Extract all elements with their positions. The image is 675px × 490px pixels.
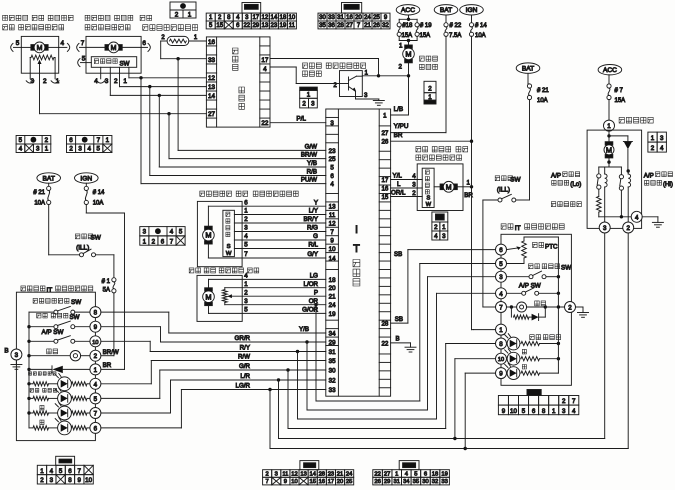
svg-text:36: 36 xyxy=(328,23,335,29)
svg-text:6: 6 xyxy=(244,199,248,206)
power source IGN top xyxy=(460,5,484,15)
svg-text:BR: BR xyxy=(103,362,112,369)
svg-text:10: 10 xyxy=(92,340,98,346)
svg-text:22: 22 xyxy=(374,471,380,477)
auto amp body xyxy=(206,37,270,127)
wire pin 7 to L/R xyxy=(101,412,171,414)
label rear vent LED xyxy=(530,335,535,340)
svg-text:T: T xyxy=(353,243,360,255)
svg-text:1: 1 xyxy=(651,135,655,142)
svg-text:32: 32 xyxy=(432,479,438,485)
svg-text:# 14: # 14 xyxy=(475,23,487,29)
svg-text:BAT: BAT xyxy=(522,66,534,73)
svg-text:1: 1 xyxy=(607,123,611,130)
svg-text:2: 2 xyxy=(244,289,248,296)
svg-text:15: 15 xyxy=(381,194,388,201)
transistor Q1 xyxy=(348,77,350,90)
LED row rear vent to pin 5 xyxy=(30,388,33,392)
svg-text:17: 17 xyxy=(328,479,334,485)
svg-text:25: 25 xyxy=(329,156,336,163)
fuse #19 15A xyxy=(415,23,419,27)
wire blower fan to IT amp pin 1 (L/B) xyxy=(408,63,410,115)
wire SB IT 28 to rear IT pin 6 xyxy=(391,322,408,324)
svg-text:27: 27 xyxy=(208,111,216,118)
svg-text:10: 10 xyxy=(510,408,517,415)
bottom connector E tab xyxy=(300,461,319,470)
svg-text:10: 10 xyxy=(329,246,336,253)
svg-text:15: 15 xyxy=(309,479,315,485)
svg-text:27: 27 xyxy=(381,130,388,137)
svg-text:7: 7 xyxy=(81,40,85,47)
front IT pin 7 xyxy=(90,408,101,419)
svg-text:2: 2 xyxy=(626,225,630,232)
wire pin 5 to G/R xyxy=(101,397,160,399)
svg-text:5: 5 xyxy=(19,137,23,144)
bottom connector F tab xyxy=(399,461,419,470)
power source IGN left xyxy=(75,173,99,183)
motor M rear air mix xyxy=(205,288,213,291)
svg-text:1: 1 xyxy=(442,224,446,231)
svg-text:4: 4 xyxy=(499,291,503,298)
connector 1-3/2-4 xyxy=(648,132,657,142)
svg-text:33: 33 xyxy=(441,479,447,485)
svg-text:5: 5 xyxy=(179,229,183,236)
svg-text:22: 22 xyxy=(261,120,269,127)
svg-text:4: 4 xyxy=(635,214,639,221)
svg-text:7: 7 xyxy=(266,479,269,485)
svg-text:1: 1 xyxy=(395,471,398,477)
illumination lamp rear to pin 7 xyxy=(507,306,512,308)
wire transistor pin1 to blower fan xyxy=(362,75,408,77)
weak LED to pin 10 xyxy=(496,353,507,364)
svg-text:12: 12 xyxy=(208,75,216,82)
svg-text:10A: 10A xyxy=(93,201,104,207)
svg-text:P: P xyxy=(314,289,318,296)
svg-text:5: 5 xyxy=(16,40,20,47)
svg-text:14: 14 xyxy=(271,15,278,21)
svg-text:2: 2 xyxy=(152,238,156,245)
svg-text:2: 2 xyxy=(434,224,438,231)
auto amp right pin strip xyxy=(259,37,261,127)
svg-text:GR/R: GR/R xyxy=(235,335,251,342)
parallel fuse rails xyxy=(399,18,417,20)
position detect SW box separate xyxy=(223,210,235,256)
svg-text:7: 7 xyxy=(94,411,98,418)
connector B tab xyxy=(342,3,362,14)
svg-text:R/L: R/L xyxy=(308,242,318,249)
separate door actuator box xyxy=(197,201,242,266)
svg-text:4: 4 xyxy=(50,468,54,475)
svg-text:ACC: ACC xyxy=(603,67,617,74)
wire GR/R to pin 29 xyxy=(161,341,326,343)
air purifier pin 2 xyxy=(623,222,634,233)
wire pin 9 to GR/R xyxy=(101,326,161,328)
wire R/W to pin 35 xyxy=(151,360,325,362)
rear IT connector xyxy=(527,390,541,396)
wire Y/B to pin 34 xyxy=(169,332,326,334)
svg-text:15A: 15A xyxy=(402,33,413,39)
svg-text:3: 3 xyxy=(105,78,109,85)
svg-text:26: 26 xyxy=(374,479,380,485)
svg-text:B: B xyxy=(396,335,400,342)
svg-text:19: 19 xyxy=(329,311,336,318)
svg-text:Y/PU: Y/PU xyxy=(394,123,409,130)
svg-text:28: 28 xyxy=(381,321,388,328)
svg-text:21: 21 xyxy=(337,471,343,477)
svg-text:P/L: P/L xyxy=(296,116,306,123)
svg-text:R/W: R/W xyxy=(238,354,250,361)
svg-text:G/W: G/W xyxy=(305,144,318,151)
svg-text:# 22: # 22 xyxy=(450,23,462,29)
wire R/B xyxy=(150,175,326,177)
wire motor to pins 7/6 xyxy=(86,46,105,48)
svg-text:20: 20 xyxy=(355,15,362,21)
svg-text:W: W xyxy=(226,251,232,257)
switch rear vent SW to pin 9 xyxy=(37,313,41,318)
svg-text:35: 35 xyxy=(329,358,336,365)
svg-text:32: 32 xyxy=(329,377,336,384)
rear air mix actuator box xyxy=(197,275,242,321)
label blower fan xyxy=(420,56,425,61)
svg-text:14: 14 xyxy=(208,93,216,100)
pin 3 wire to ground xyxy=(355,91,357,99)
bus U4 G/R to rear IT pin 8 xyxy=(287,370,289,429)
IT amp body xyxy=(326,109,391,396)
svg-text:# 21: # 21 xyxy=(33,190,45,196)
svg-text:29: 29 xyxy=(252,23,259,29)
svg-text:M: M xyxy=(205,231,211,240)
pin 7 bracket xyxy=(77,43,79,51)
svg-text:7: 7 xyxy=(572,398,576,405)
svg-text:31: 31 xyxy=(329,349,336,356)
svg-text:PU/W: PU/W xyxy=(301,177,317,184)
motor M front mode xyxy=(105,45,109,51)
label illumination rear xyxy=(535,301,540,306)
connector A table xyxy=(206,13,215,21)
internal bus front IT xyxy=(28,312,30,428)
position detect SW box rear mode xyxy=(422,168,434,207)
air purifier pin 3 xyxy=(599,222,610,233)
svg-text:2: 2 xyxy=(40,477,44,484)
svg-text:SB: SB xyxy=(394,251,402,258)
svg-text:14: 14 xyxy=(309,471,316,477)
svg-text:6: 6 xyxy=(69,137,73,144)
fuse #7 15A xyxy=(607,84,611,88)
svg-text:30: 30 xyxy=(422,479,428,485)
svg-text:SW: SW xyxy=(561,265,571,272)
svg-text:31: 31 xyxy=(394,479,400,485)
bottom connector F table xyxy=(373,470,383,478)
svg-text:10: 10 xyxy=(291,479,297,485)
svg-text:SW: SW xyxy=(91,235,102,242)
svg-text:1: 1 xyxy=(399,42,403,49)
pin 1 wire to auto amp 12 xyxy=(128,67,130,78)
svg-text:1: 1 xyxy=(307,92,311,99)
svg-text:23: 23 xyxy=(271,23,278,29)
svg-text:3: 3 xyxy=(78,146,82,153)
svg-text:2: 2 xyxy=(568,305,572,312)
svg-text:1: 1 xyxy=(40,468,44,475)
svg-text:IGN: IGN xyxy=(80,175,92,182)
svg-text:2: 2 xyxy=(69,146,73,153)
ground air purifier xyxy=(652,221,663,223)
front mode actuator box xyxy=(86,36,141,73)
ACC feed wire xyxy=(408,15,410,19)
front IT pin 5 xyxy=(90,393,101,404)
svg-text:2: 2 xyxy=(43,78,47,85)
ground IT amp xyxy=(405,346,416,348)
svg-text:A/P SW: A/P SW xyxy=(519,283,541,290)
svg-text:3: 3 xyxy=(412,181,416,188)
label air purifier xyxy=(619,117,624,123)
svg-text:(ILL): (ILL) xyxy=(497,187,510,194)
svg-text:1: 1 xyxy=(499,327,503,334)
svg-text:(Hi): (Hi) xyxy=(663,181,673,188)
IT amp right pin strip xyxy=(378,109,380,396)
svg-text:1: 1 xyxy=(45,146,49,153)
wire pin 7 G/Y xyxy=(207,244,209,258)
svg-text:4: 4 xyxy=(170,229,174,236)
svg-text:30: 30 xyxy=(319,15,326,21)
svg-text:2: 2 xyxy=(562,398,566,405)
wire IGN down to rear IT pin 1 (BR) xyxy=(471,36,473,329)
wire pin 2 BR/Y xyxy=(234,222,325,224)
svg-text:8: 8 xyxy=(68,477,72,484)
wire pin 5 R/L xyxy=(234,248,325,250)
svg-text:9: 9 xyxy=(78,477,82,484)
svg-text:3: 3 xyxy=(311,101,315,108)
bus U6 LG/R to rear IT pin 9 and air purifier 2 xyxy=(269,390,271,449)
svg-text:I: I xyxy=(355,224,358,236)
label front IT control xyxy=(21,286,26,291)
air purifier box xyxy=(587,130,642,228)
svg-text:20: 20 xyxy=(329,285,336,292)
svg-text:M: M xyxy=(37,45,43,52)
svg-text:15A: 15A xyxy=(420,33,431,39)
strong LED to pin 9 xyxy=(496,368,507,379)
diode air purifier xyxy=(609,135,628,137)
relay Hi contact xyxy=(620,167,622,175)
svg-text:1: 1 xyxy=(188,12,192,19)
svg-text:32: 32 xyxy=(382,23,389,29)
bus U1 OR to rear IT pin 5 xyxy=(315,305,317,401)
svg-text:19: 19 xyxy=(280,23,287,29)
svg-text:1: 1 xyxy=(143,238,147,245)
svg-text:6: 6 xyxy=(499,247,503,254)
wire R/Y to pin 31 xyxy=(150,351,326,353)
wire BR/W xyxy=(169,158,326,160)
light switch ILL right contacts xyxy=(483,199,498,201)
svg-text:BR/W: BR/W xyxy=(103,349,119,356)
svg-text:7: 7 xyxy=(499,305,503,312)
LED row weak to pin 7 xyxy=(40,405,44,410)
connector 2/1 black base xyxy=(424,81,436,92)
svg-text:2: 2 xyxy=(302,101,306,108)
svg-text:6: 6 xyxy=(532,408,536,415)
svg-text:9: 9 xyxy=(284,479,287,485)
label rear IT control xyxy=(501,224,506,229)
LED row strong to pin 6 xyxy=(40,420,44,425)
fuse #14 10A xyxy=(469,23,473,27)
wire pin 3 R/G xyxy=(234,231,325,233)
wire pin 4 to R/W xyxy=(101,383,151,385)
label strong rear xyxy=(522,365,526,370)
svg-text:7.5A: 7.5A xyxy=(449,33,461,39)
svg-text:3: 3 xyxy=(50,477,54,484)
svg-text:25: 25 xyxy=(373,15,380,21)
svg-text:4: 4 xyxy=(330,181,334,188)
svg-text:W: W xyxy=(426,202,432,208)
svg-text:L/OR: L/OR xyxy=(304,281,319,288)
label front mode door actuator xyxy=(85,15,90,20)
front IT pin 2 xyxy=(90,350,101,361)
fan control amp box xyxy=(340,71,363,97)
svg-text:4: 4 xyxy=(263,66,267,73)
power source ACC top xyxy=(396,5,420,15)
svg-text:IT: IT xyxy=(47,287,53,294)
bus U5 L/R to rear IT pin 10 and air purifier 3 xyxy=(278,380,280,439)
svg-text:9: 9 xyxy=(94,324,98,331)
svg-text:1: 1 xyxy=(428,94,432,101)
svg-text:SW: SW xyxy=(120,60,130,67)
bottom connector E table xyxy=(263,470,272,478)
svg-text:3: 3 xyxy=(499,274,503,281)
svg-text:10: 10 xyxy=(85,477,92,484)
ground rear IT xyxy=(576,306,584,308)
wire L/R to pin 32 xyxy=(171,379,326,381)
svg-text:3: 3 xyxy=(330,120,334,127)
label rear air mix door actuator xyxy=(189,268,194,273)
svg-text:6: 6 xyxy=(330,173,334,180)
pin 3 xyxy=(29,73,31,79)
fuse #14 10A left xyxy=(84,186,88,190)
svg-text:4: 4 xyxy=(87,146,91,153)
svg-text:19: 19 xyxy=(441,471,447,477)
svg-text:1: 1 xyxy=(244,281,248,288)
blower fan motor xyxy=(408,41,410,48)
connector E2 3-dot-4-5 / 1267X xyxy=(140,227,185,236)
svg-text:S: S xyxy=(427,196,431,202)
connector A tab xyxy=(242,3,261,14)
wire pin 1 L/Y xyxy=(234,214,325,216)
svg-text:R/G: R/G xyxy=(307,225,318,232)
switch rear-seat-priority-heat SW to pin 8 xyxy=(33,298,37,303)
wire rear IT pin 1 from BR vertical xyxy=(473,329,475,331)
ground fan amp xyxy=(373,100,384,102)
svg-text:4: 4 xyxy=(434,233,438,240)
svg-text:G/Y: G/Y xyxy=(307,251,318,258)
svg-text:(Lo): (Lo) xyxy=(570,181,581,188)
wire Y/B xyxy=(159,166,325,168)
svg-text:7: 7 xyxy=(244,251,248,258)
svg-text:1: 1 xyxy=(94,367,98,374)
front IT pin 4 xyxy=(90,378,101,389)
auto amp left pin strip xyxy=(216,37,218,127)
label rear vent SW xyxy=(529,264,534,269)
svg-text:L/Y: L/Y xyxy=(309,208,318,215)
svg-text:2: 2 xyxy=(428,85,432,92)
wire BAT to IT amp pin 27 (Y/PU) xyxy=(445,36,447,132)
svg-text:11: 11 xyxy=(289,23,296,29)
svg-text:15: 15 xyxy=(216,23,223,29)
svg-text:3: 3 xyxy=(275,471,278,477)
light switch ILL left xyxy=(75,234,80,239)
svg-text:18: 18 xyxy=(280,15,287,21)
svg-text:LG: LG xyxy=(310,273,318,280)
wire pin 1 BR from IGN xyxy=(101,368,125,370)
svg-text:28: 28 xyxy=(337,23,344,29)
wire pin 6 to LG/R xyxy=(101,427,181,429)
svg-text:17: 17 xyxy=(252,15,259,21)
svg-text:17: 17 xyxy=(261,57,269,64)
svg-text:(ILL): (ILL) xyxy=(76,244,89,251)
front IT pin 8 xyxy=(90,307,101,318)
svg-text:13: 13 xyxy=(208,84,216,91)
svg-text:BR/W: BR/W xyxy=(301,152,317,159)
svg-text:Y/B: Y/B xyxy=(299,326,309,333)
wire IT amp pin 26 BR xyxy=(391,140,472,142)
svg-text:# 14: # 14 xyxy=(93,190,105,196)
position detect switch box xyxy=(91,57,136,68)
svg-text:13: 13 xyxy=(300,471,306,477)
pin 4 stub + bracket xyxy=(100,67,102,79)
svg-text:SW: SW xyxy=(71,299,81,306)
ground node B circle 3 xyxy=(11,349,22,360)
svg-text:33: 33 xyxy=(329,387,336,394)
svg-text:16: 16 xyxy=(319,479,325,485)
wire pin 2 P wiper arrow xyxy=(231,295,326,297)
svg-text:9: 9 xyxy=(502,408,506,415)
svg-text:35: 35 xyxy=(413,479,419,485)
rear IT pin 6 xyxy=(496,244,507,255)
svg-text:5: 5 xyxy=(82,55,86,62)
svg-text:1: 1 xyxy=(467,179,471,186)
svg-text:22: 22 xyxy=(381,340,388,347)
svg-text:21: 21 xyxy=(329,294,336,301)
pin 1 xyxy=(54,73,56,79)
svg-text:27: 27 xyxy=(346,23,353,29)
intake temp sensor body xyxy=(167,36,189,45)
svg-text:6: 6 xyxy=(424,471,427,477)
resistor (rejisuta) xyxy=(598,189,600,196)
svg-text:26: 26 xyxy=(381,139,388,146)
svg-text:2: 2 xyxy=(175,12,179,19)
svg-text:3: 3 xyxy=(244,225,248,232)
svg-text:18: 18 xyxy=(329,277,336,284)
connector D 6-dot-7-1 / 2345X xyxy=(67,136,112,145)
svg-text:12: 12 xyxy=(261,15,268,21)
svg-text:2: 2 xyxy=(412,190,416,197)
svg-text:1: 1 xyxy=(123,78,127,85)
svg-text:3: 3 xyxy=(660,135,664,142)
pin 4 bracket xyxy=(67,43,69,51)
svg-text:11: 11 xyxy=(282,471,288,477)
svg-text:25: 25 xyxy=(346,479,352,485)
svg-text:7: 7 xyxy=(78,468,82,475)
svg-text:6: 6 xyxy=(68,468,72,475)
svg-text:#18: #18 xyxy=(402,23,413,29)
svg-text:5: 5 xyxy=(244,242,248,249)
svg-text:R/B: R/B xyxy=(307,169,317,176)
svg-text:5: 5 xyxy=(59,468,63,475)
svg-text:22: 22 xyxy=(243,23,250,29)
svg-text:1: 1 xyxy=(106,137,110,144)
svg-text:5: 5 xyxy=(97,146,101,153)
svg-text:BAT: BAT xyxy=(43,175,55,182)
fuse #21 10A left xyxy=(47,186,51,190)
svg-text:24: 24 xyxy=(346,471,353,477)
svg-text:33: 33 xyxy=(208,57,216,64)
